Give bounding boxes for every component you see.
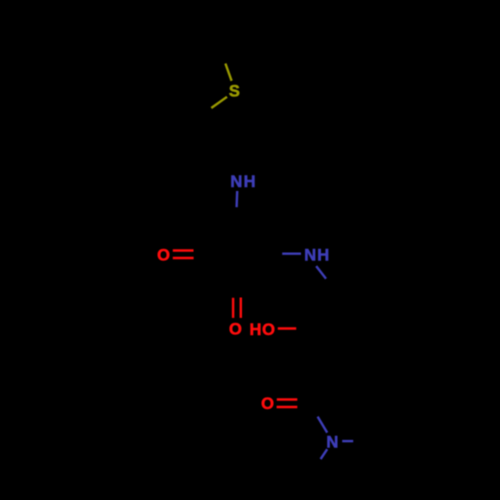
svg-text:H: H: [244, 173, 256, 191]
svg-text:H: H: [249, 321, 261, 339]
svg-text:O: O: [262, 321, 275, 339]
svg-text:O: O: [261, 395, 274, 413]
svg-text:N: N: [326, 434, 338, 452]
svg-text:O: O: [229, 321, 242, 339]
svg-text:S: S: [229, 83, 240, 101]
svg-text:N: N: [230, 173, 242, 191]
svg-text:N: N: [304, 247, 316, 265]
svg-text:O: O: [157, 247, 170, 265]
svg-text:H: H: [317, 247, 329, 265]
